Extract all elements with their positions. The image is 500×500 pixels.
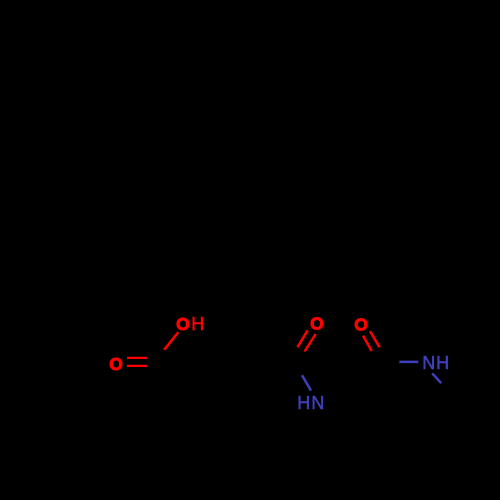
svg-text:N: N	[422, 353, 435, 373]
svg-text:O: O	[354, 314, 368, 334]
bond C-OH (oxygen half, carboxylic acid)	[164, 332, 178, 350]
bond C=O double bond, inner line (right amide)	[363, 336, 372, 351]
bond N-CH3 (nitrogen half, right amide N-methyl)	[432, 373, 441, 383]
svg-text:N: N	[311, 393, 324, 413]
bond C=O double bond, main line (left amide)	[305, 334, 316, 352]
svg-text:O: O	[310, 314, 324, 334]
svg-text:O: O	[176, 314, 190, 334]
atom label OH (carboxylic acid hydroxyl)	[176, 314, 204, 334]
atom label NH (right amide nitrogen)	[422, 353, 449, 373]
svg-text:H: H	[191, 314, 204, 334]
bond C-N (nitrogen half, left amide)	[302, 375, 311, 390]
bond C=O double bond, inner line (left amide)	[298, 330, 308, 347]
bond C-N (nitrogen half, right amide)	[399, 361, 418, 364]
svg-text:O: O	[109, 354, 123, 374]
bond C=O double bond, main line (right amide)	[370, 331, 380, 347]
atom label HN (left amide nitrogen)	[297, 393, 324, 413]
svg-text:H: H	[436, 353, 449, 373]
svg-text:H: H	[297, 393, 310, 413]
atom label O (right amide carbonyl oxygen)	[354, 314, 368, 334]
atom label O (carboxylic acid carbonyl oxygen)	[109, 354, 123, 374]
bond C=O double bond, upper line (carboxylic acid)	[127, 357, 147, 359]
atom label O (left amide carbonyl oxygen)	[310, 314, 324, 334]
bond C=O double bond, lower line (carboxylic acid)	[127, 365, 147, 367]
